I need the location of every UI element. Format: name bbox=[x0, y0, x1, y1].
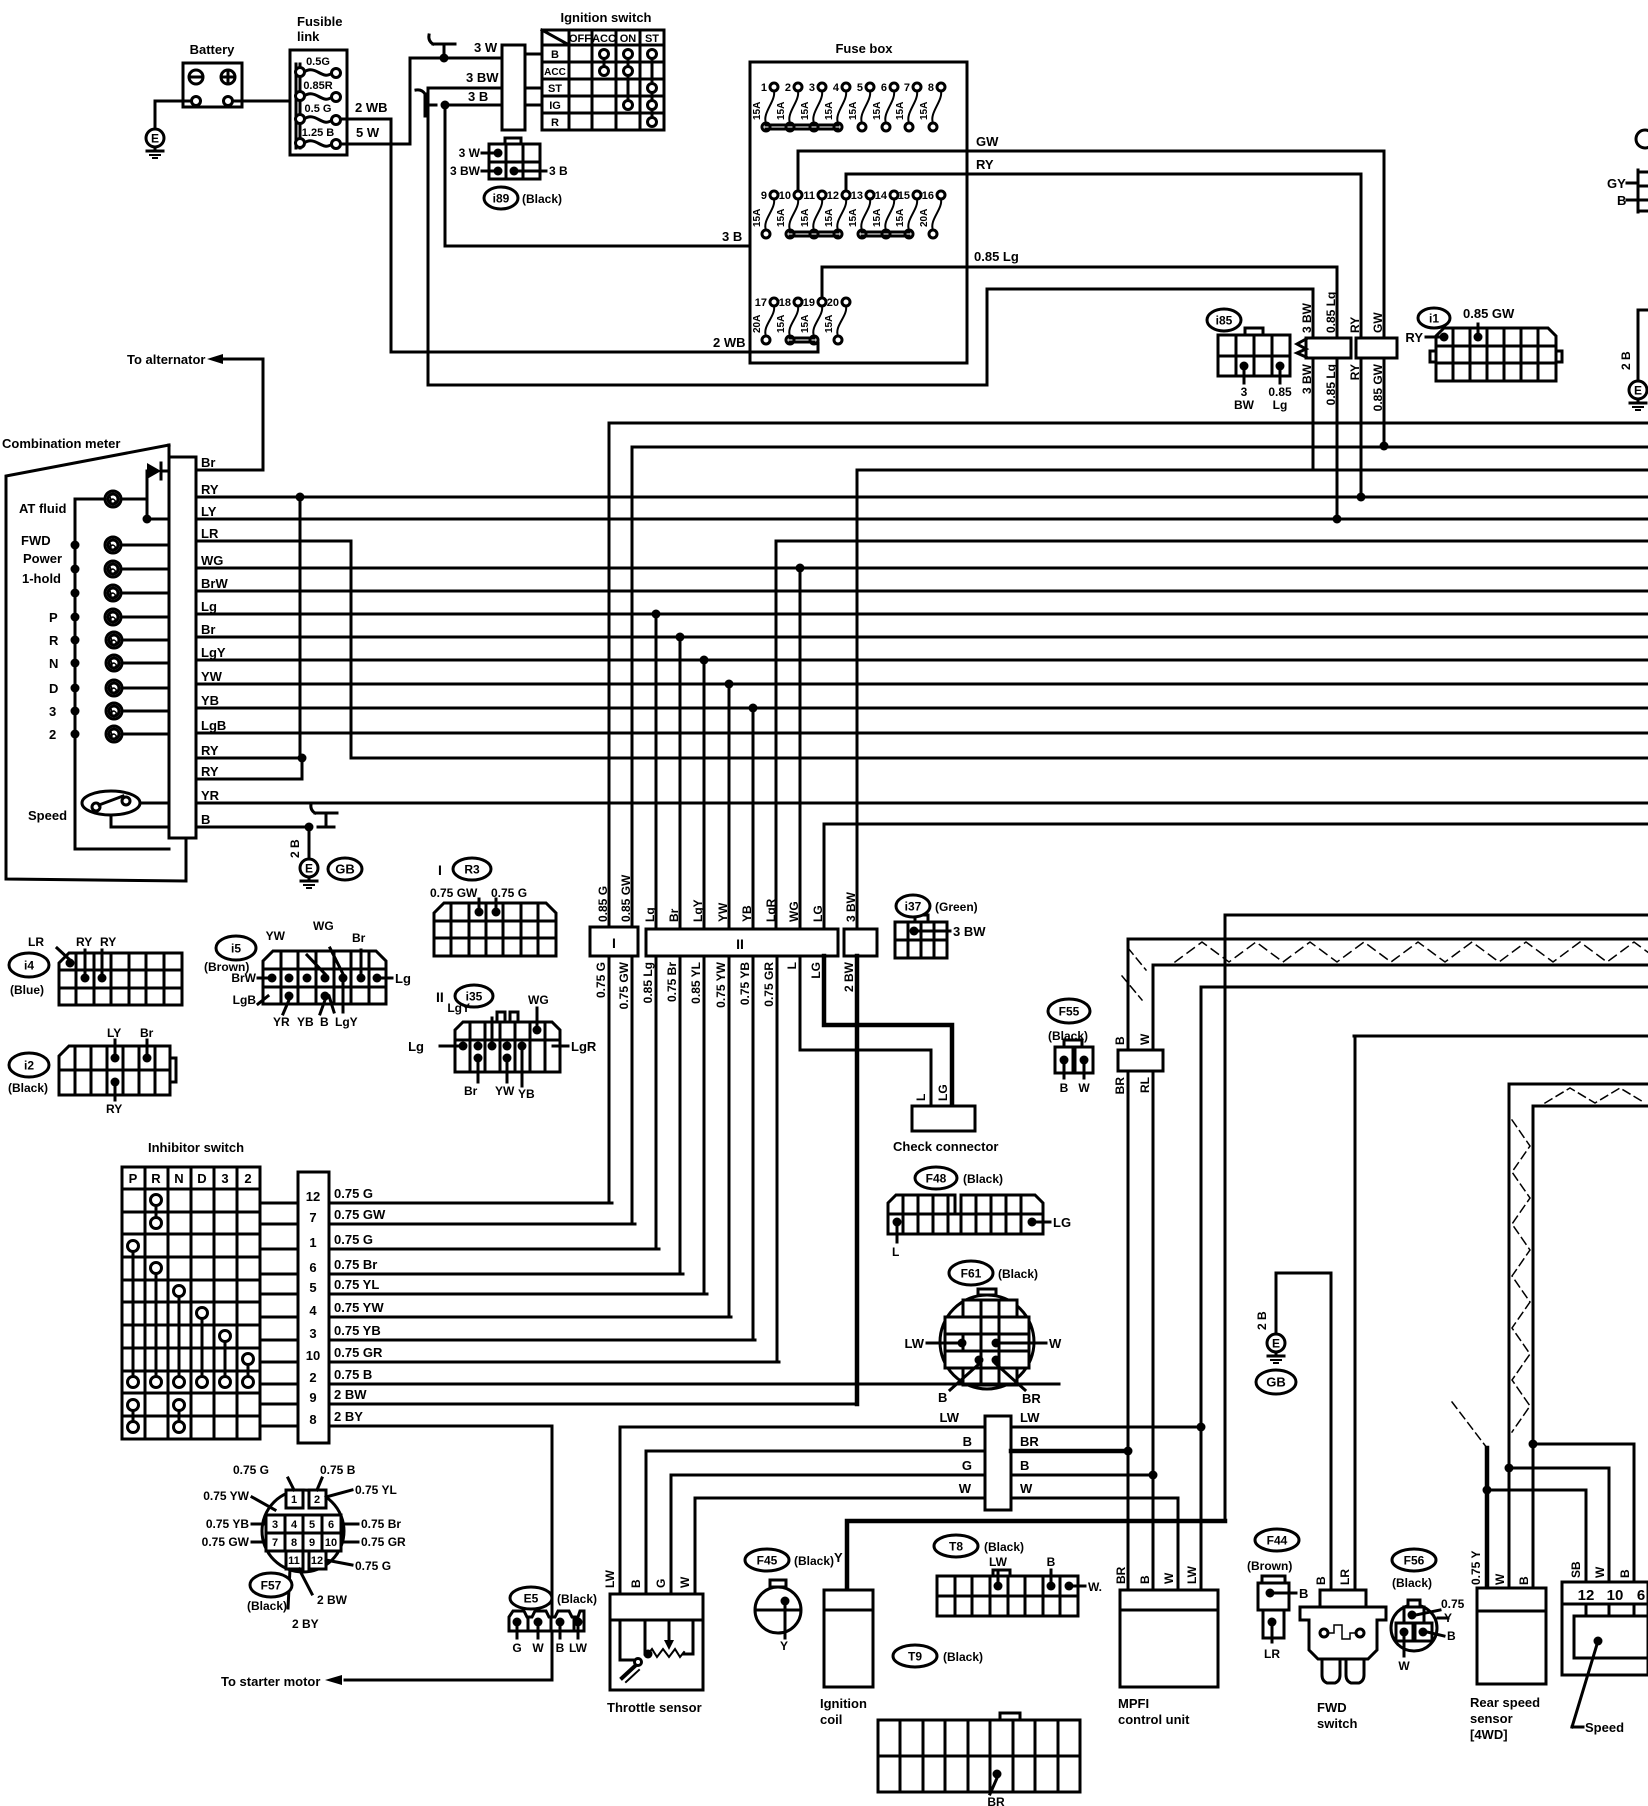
rear speed sensor bbox=[1470, 1588, 1546, 1742]
svg-text:D: D bbox=[197, 1171, 206, 1186]
svg-text:12: 12 bbox=[311, 1555, 323, 1567]
connector id F57 bbox=[250, 1573, 292, 1597]
ground id GB (meter) bbox=[328, 858, 362, 880]
svg-text:RY: RY bbox=[201, 482, 219, 497]
svg-text:0.85 GW: 0.85 GW bbox=[619, 874, 633, 922]
wire 2BY to starter motor bbox=[345, 1426, 552, 1680]
inhibitor pin 5 wire 0.75 YL bbox=[260, 1293, 298, 1296]
wire 0.85YL below bbox=[703, 956, 706, 1294]
fuse 16 20A bbox=[932, 199, 941, 230]
svg-text:0.85R: 0.85R bbox=[303, 80, 332, 92]
svg-text:Y: Y bbox=[780, 1639, 788, 1653]
svg-text:WG: WG bbox=[313, 919, 334, 933]
svg-text:BR: BR bbox=[1020, 1434, 1039, 1449]
svg-text:0.75 G: 0.75 G bbox=[233, 1463, 269, 1477]
svg-text:1: 1 bbox=[761, 82, 767, 94]
fuse 7 15A bbox=[908, 91, 917, 123]
svg-text:Br: Br bbox=[140, 1026, 154, 1040]
svg-text:I: I bbox=[612, 935, 616, 951]
svg-text:i5: i5 bbox=[231, 941, 241, 955]
svg-text:LY: LY bbox=[107, 1026, 121, 1040]
svg-text:Y: Y bbox=[834, 1550, 843, 1565]
to alternator arrow bbox=[127, 352, 261, 367]
svg-text:0.75 GW: 0.75 GW bbox=[430, 886, 478, 900]
wire L below to check connector bbox=[800, 956, 931, 1106]
fuse 6 15A bbox=[885, 91, 894, 123]
svg-text:B: B bbox=[551, 49, 559, 61]
svg-text:0.75 Br: 0.75 Br bbox=[361, 1517, 401, 1531]
svg-text:LgY: LgY bbox=[447, 1001, 470, 1015]
svg-text:5: 5 bbox=[309, 1280, 316, 1295]
svg-text:coil: coil bbox=[820, 1712, 842, 1727]
svg-text:10: 10 bbox=[325, 1537, 337, 1549]
svg-text:18: 18 bbox=[779, 297, 791, 309]
svg-text:0.85 G: 0.85 G bbox=[596, 886, 610, 922]
svg-text:P: P bbox=[49, 610, 58, 625]
wire W to rear speed sensor bbox=[1508, 1468, 1511, 1588]
svg-text:Br: Br bbox=[667, 908, 681, 922]
svg-text:LG: LG bbox=[811, 905, 825, 922]
connector i2 bbox=[9, 1053, 49, 1077]
shield zigzag top bbox=[1175, 942, 1648, 962]
svg-text:W: W bbox=[1162, 1572, 1176, 1584]
svg-text:Power: Power bbox=[23, 551, 62, 566]
wire WG drop bbox=[799, 568, 802, 929]
svg-text:LgY: LgY bbox=[335, 1015, 358, 1029]
wire LgR bus bbox=[776, 540, 1648, 543]
svg-text:12: 12 bbox=[1578, 1587, 1595, 1604]
check connector bbox=[893, 1106, 998, 1154]
svg-text:LgR: LgR bbox=[764, 898, 778, 922]
svg-text:Y: Y bbox=[1444, 1611, 1452, 1625]
shield zigzag right horizontal bbox=[1545, 1088, 1645, 1103]
wire 0.75Br below bbox=[679, 956, 682, 1274]
svg-text:B: B bbox=[1113, 1036, 1127, 1045]
svg-text:(Brown): (Brown) bbox=[1247, 1559, 1292, 1573]
svg-text:(Black): (Black) bbox=[963, 1172, 1003, 1186]
svg-text:2: 2 bbox=[49, 727, 56, 742]
svg-text:Inhibitor switch: Inhibitor switch bbox=[148, 1140, 244, 1155]
svg-text:B: B bbox=[1299, 1586, 1308, 1601]
wire LgR drop bbox=[775, 541, 778, 929]
svg-text:RY: RY bbox=[1348, 317, 1362, 333]
svg-text:0.85: 0.85 bbox=[1268, 385, 1292, 399]
svg-text:3 BW: 3 BW bbox=[953, 924, 986, 939]
svg-text:7: 7 bbox=[904, 82, 910, 94]
svg-text:Br: Br bbox=[201, 622, 215, 637]
svg-text:5: 5 bbox=[857, 82, 863, 94]
svg-text:ST: ST bbox=[548, 83, 562, 95]
svg-text:IG: IG bbox=[549, 100, 561, 112]
connector F45 bbox=[745, 1549, 789, 1571]
svg-text:Fusible: Fusible bbox=[297, 14, 343, 29]
svg-text:BR: BR bbox=[1113, 1077, 1127, 1095]
connector F44 bbox=[1255, 1529, 1299, 1551]
wire Lg long bbox=[214, 613, 1648, 616]
svg-text:15A: 15A bbox=[800, 102, 811, 120]
svg-text:RY: RY bbox=[1405, 330, 1423, 345]
svg-text:0.75 YW: 0.75 YW bbox=[203, 1489, 249, 1503]
svg-text:N: N bbox=[49, 656, 58, 671]
wire LW drop to MPFI bbox=[1200, 987, 1203, 1590]
ignition coil bbox=[820, 1590, 873, 1727]
svg-text:0.75 GW: 0.75 GW bbox=[202, 1535, 250, 1549]
wire W throttle to junction bbox=[695, 1498, 985, 1594]
svg-text:0.75 G: 0.75 G bbox=[355, 1559, 391, 1573]
svg-text:YW: YW bbox=[266, 929, 286, 943]
svg-text:link: link bbox=[297, 29, 320, 44]
svg-text:LW: LW bbox=[1020, 1410, 1040, 1425]
fusible link bbox=[290, 14, 347, 155]
wire 0.75Y to rear speed sensor bbox=[1485, 1448, 1490, 1588]
svg-text:1.25 B: 1.25 B bbox=[302, 127, 334, 139]
svg-text:15A: 15A bbox=[776, 102, 787, 120]
svg-text:0.75 GR: 0.75 GR bbox=[762, 962, 776, 1007]
svg-text:0.85 Lg: 0.85 Lg bbox=[974, 249, 1019, 264]
svg-text:F56: F56 bbox=[1404, 1553, 1425, 1567]
wire FWD LR up bbox=[1354, 1036, 1357, 1590]
svg-text:Check connector: Check connector bbox=[893, 1139, 998, 1154]
svg-text:15A: 15A bbox=[848, 102, 859, 120]
wire RY short 1 bbox=[214, 757, 302, 760]
svg-text:2 BW: 2 BW bbox=[842, 961, 856, 992]
svg-text:RL: RL bbox=[1138, 1077, 1152, 1093]
svg-text:W: W bbox=[1493, 1573, 1507, 1585]
svg-text:0.75 G: 0.75 G bbox=[334, 1186, 373, 1201]
FWD switch bbox=[1300, 1569, 1386, 1731]
wire GW continues below bbox=[1383, 358, 1386, 446]
svg-text:0.75 Y: 0.75 Y bbox=[1469, 1551, 1483, 1585]
svg-text:BrW: BrW bbox=[231, 971, 256, 985]
svg-text:R: R bbox=[49, 633, 59, 648]
svg-text:8: 8 bbox=[309, 1412, 316, 1427]
svg-text:BR: BR bbox=[1022, 1391, 1041, 1406]
svg-text:(Green): (Green) bbox=[935, 900, 978, 914]
connector id i37 bbox=[896, 895, 930, 917]
svg-text:0.75 YB: 0.75 YB bbox=[738, 962, 752, 1005]
inline connector (RY / GW) bbox=[1356, 338, 1397, 358]
svg-text:15A: 15A bbox=[872, 102, 883, 120]
svg-text:0.75 Br: 0.75 Br bbox=[334, 1257, 377, 1272]
svg-text:20A: 20A bbox=[919, 209, 930, 227]
svg-text:L: L bbox=[785, 962, 799, 969]
svg-text:3: 3 bbox=[49, 704, 56, 719]
svg-text:LG: LG bbox=[1053, 1215, 1071, 1230]
svg-text:Lg: Lg bbox=[643, 907, 657, 922]
wire LgY drop bbox=[703, 660, 706, 929]
inhibitor pin 3 wire 0.75 YB bbox=[260, 1339, 298, 1342]
shielded pair B wire y939 bbox=[1128, 938, 1648, 941]
svg-text:LgY: LgY bbox=[201, 645, 226, 660]
svg-text:0.75 G: 0.75 G bbox=[594, 962, 608, 998]
fuse 12 15A bbox=[837, 199, 846, 230]
splice symbol 3B bbox=[425, 104, 436, 107]
svg-text:W: W bbox=[678, 1576, 692, 1588]
svg-text:2 BY: 2 BY bbox=[292, 1617, 319, 1631]
battery bbox=[183, 42, 242, 107]
right edge ground 2B bbox=[1619, 310, 1648, 380]
svg-text:GB: GB bbox=[335, 862, 355, 877]
ground E (battery) bbox=[146, 129, 164, 147]
svg-text:2 B: 2 B bbox=[1255, 1311, 1269, 1330]
svg-text:3: 3 bbox=[1241, 385, 1248, 399]
wire B junction bbox=[1011, 1474, 1153, 1477]
AT junction bar bbox=[985, 1416, 1011, 1510]
svg-text:i2: i2 bbox=[24, 1058, 34, 1072]
ignition switch connector bar bbox=[502, 45, 525, 130]
svg-text:W: W bbox=[1078, 1081, 1090, 1095]
svg-text:L: L bbox=[892, 1245, 899, 1259]
svg-text:LgB: LgB bbox=[233, 993, 257, 1007]
svg-text:II: II bbox=[736, 936, 744, 952]
svg-text:RY: RY bbox=[201, 764, 219, 779]
wire Br long bbox=[214, 636, 1648, 639]
fuse 13 15A bbox=[861, 199, 870, 230]
svg-text:LW: LW bbox=[989, 1555, 1008, 1569]
svg-text:G: G bbox=[654, 1579, 668, 1588]
svg-text:0.5G: 0.5G bbox=[306, 56, 330, 68]
svg-text:7: 7 bbox=[272, 1537, 278, 1549]
svg-text:(Black): (Black) bbox=[522, 192, 562, 206]
svg-text:To starter motor: To starter motor bbox=[221, 1674, 320, 1689]
svg-text:B: B bbox=[201, 812, 210, 827]
svg-text:Fuse box: Fuse box bbox=[835, 41, 893, 56]
svg-text:B: B bbox=[1617, 193, 1626, 208]
svg-text:0.75 B: 0.75 B bbox=[334, 1367, 372, 1382]
svg-text:D: D bbox=[49, 681, 58, 696]
svg-text:1: 1 bbox=[309, 1235, 316, 1250]
svg-text:2 WB: 2 WB bbox=[355, 100, 388, 115]
fuse 10 15A bbox=[789, 199, 798, 230]
svg-text:4: 4 bbox=[291, 1519, 298, 1531]
MPFI control unit bbox=[1114, 1565, 1218, 1727]
svg-text:(Black): (Black) bbox=[557, 1592, 597, 1606]
junction bar I bbox=[590, 927, 638, 956]
svg-text:0.75 YL: 0.75 YL bbox=[355, 1483, 397, 1497]
svg-text:BR: BR bbox=[1114, 1566, 1128, 1584]
svg-text:15A: 15A bbox=[919, 102, 930, 120]
wire YW long bbox=[214, 683, 1648, 686]
svg-text:T8: T8 bbox=[949, 1539, 963, 1553]
inhibitor pin 8 wire 2 BY bbox=[260, 1425, 298, 1428]
wire W junction to MPFI bbox=[1011, 1498, 1178, 1590]
svg-text:B: B bbox=[938, 1390, 947, 1405]
svg-text:10: 10 bbox=[1607, 1587, 1624, 1604]
fuse 18 15A bbox=[789, 306, 798, 336]
ground E (meter) bbox=[300, 859, 318, 877]
fuse box bbox=[750, 41, 967, 363]
svg-text:LR: LR bbox=[1264, 1647, 1280, 1661]
svg-text:8: 8 bbox=[291, 1537, 297, 1549]
wire RY long bbox=[214, 496, 1648, 499]
connector T9 bbox=[893, 1645, 937, 1667]
wire WG long bbox=[214, 567, 1648, 570]
svg-text:6: 6 bbox=[328, 1519, 334, 1531]
svg-text:3 BW: 3 BW bbox=[1300, 302, 1314, 333]
connector F56 bbox=[1392, 1549, 1436, 1571]
svg-text:0.75 G: 0.75 G bbox=[491, 886, 527, 900]
svg-text:2: 2 bbox=[244, 1171, 251, 1186]
svg-text:3 B: 3 B bbox=[468, 89, 488, 104]
svg-text:2 WB: 2 WB bbox=[713, 335, 746, 350]
svg-text:WG: WG bbox=[528, 993, 549, 1007]
svg-text:9: 9 bbox=[309, 1390, 316, 1405]
svg-text:B: B bbox=[1020, 1458, 1029, 1473]
wire Y drop (ignition coil) bbox=[1224, 915, 1227, 1521]
svg-text:4: 4 bbox=[833, 82, 840, 94]
connector id i89 bbox=[484, 187, 518, 209]
svg-text:2 BW: 2 BW bbox=[334, 1387, 367, 1402]
shield zigzag right vertical bbox=[1512, 1120, 1530, 1432]
svg-text:11: 11 bbox=[803, 190, 815, 202]
wire 0.85G top bus bbox=[609, 422, 1648, 425]
svg-text:5 W: 5 W bbox=[356, 125, 380, 140]
inhibitor pin 2 wire 0.75 B bbox=[260, 1383, 298, 1386]
combination meter outline bbox=[2, 436, 186, 881]
svg-text:YB: YB bbox=[740, 905, 754, 922]
svg-text:15A: 15A bbox=[895, 102, 906, 120]
svg-text:12: 12 bbox=[306, 1189, 320, 1204]
svg-text:2 BY: 2 BY bbox=[334, 1409, 363, 1424]
svg-text:0.75 YB: 0.75 YB bbox=[334, 1323, 381, 1338]
svg-text:B: B bbox=[1517, 1576, 1531, 1585]
svg-text:i89: i89 bbox=[493, 191, 510, 205]
svg-text:ON: ON bbox=[620, 33, 637, 45]
svg-text:0.75: 0.75 bbox=[1441, 1597, 1465, 1611]
svg-text:LW: LW bbox=[905, 1336, 925, 1351]
meter lamp bus bbox=[75, 499, 169, 849]
right edge connector GY/B bbox=[1607, 130, 1648, 212]
svg-text:RY: RY bbox=[201, 743, 219, 758]
svg-text:i37: i37 bbox=[905, 899, 922, 913]
svg-text:15A: 15A bbox=[848, 209, 859, 227]
svg-text:3 BW: 3 BW bbox=[466, 70, 499, 85]
wire YB long bbox=[214, 707, 1648, 710]
shielded pair W wire right bbox=[1509, 1083, 1648, 1086]
svg-text:3: 3 bbox=[309, 1326, 316, 1341]
wire 0.75GR below bbox=[776, 956, 779, 1362]
svg-text:YR: YR bbox=[201, 788, 220, 803]
svg-text:MPFI: MPFI bbox=[1118, 1696, 1149, 1711]
speed sensor switch bbox=[28, 791, 169, 827]
svg-text:Ignition switch: Ignition switch bbox=[561, 10, 652, 25]
wire 0.75YB below bbox=[752, 956, 755, 1340]
wire 0.85GW drop to bar I bbox=[631, 447, 634, 927]
svg-text:YB: YB bbox=[518, 1087, 535, 1101]
inhibitor pin 6 wire 0.75 Br bbox=[260, 1273, 298, 1276]
svg-text:i4: i4 bbox=[24, 958, 34, 972]
svg-text:10: 10 bbox=[306, 1348, 320, 1363]
svg-text:B: B bbox=[556, 1641, 565, 1655]
svg-text:15A: 15A bbox=[800, 209, 811, 227]
svg-text:F45: F45 bbox=[757, 1553, 778, 1567]
svg-text:[4WD]: [4WD] bbox=[1470, 1727, 1508, 1742]
wire LgB long bbox=[214, 732, 1648, 735]
wire 2BW below bar III bbox=[855, 956, 860, 1404]
wire 2BW/3BW bus bbox=[857, 469, 1648, 472]
svg-text:LW: LW bbox=[940, 1410, 960, 1425]
svg-text:OFF: OFF bbox=[569, 33, 591, 45]
svg-text:F55: F55 bbox=[1059, 1004, 1080, 1018]
svg-text:T9: T9 bbox=[908, 1649, 922, 1663]
wire B to rear speed sensor bbox=[1532, 1444, 1535, 1588]
svg-text:FWD: FWD bbox=[21, 533, 51, 548]
svg-text:0.5 G: 0.5 G bbox=[305, 103, 332, 115]
svg-text:LgB: LgB bbox=[201, 718, 226, 733]
wire Lg drop bbox=[655, 614, 658, 929]
wire Br drop bbox=[679, 637, 682, 929]
svg-text:i1: i1 bbox=[1429, 311, 1439, 325]
svg-text:9: 9 bbox=[761, 190, 767, 202]
wire B shield drop bbox=[1127, 939, 1130, 1050]
fuse 3 15A bbox=[813, 91, 822, 123]
svg-text:(Black): (Black) bbox=[8, 1081, 48, 1095]
svg-text:Lg: Lg bbox=[1273, 398, 1288, 412]
fuse 9 15A bbox=[765, 199, 774, 230]
svg-text:B: B bbox=[1138, 1575, 1152, 1584]
svg-text:W: W bbox=[532, 1641, 544, 1655]
svg-text:Lg: Lg bbox=[408, 1039, 424, 1054]
inhibitor switch bbox=[122, 1140, 260, 1439]
wire battery positive to fusible link bbox=[233, 100, 290, 103]
fuse 1 15A bbox=[765, 91, 774, 123]
svg-text:LgR: LgR bbox=[571, 1039, 597, 1054]
svg-text:W: W bbox=[959, 1481, 972, 1496]
svg-text:0.75 YW: 0.75 YW bbox=[334, 1300, 384, 1315]
svg-text:ST: ST bbox=[645, 33, 659, 45]
svg-text:0.85 GW: 0.85 GW bbox=[1463, 306, 1515, 321]
svg-text:YR: YR bbox=[273, 1015, 290, 1029]
svg-text:(Black): (Black) bbox=[998, 1267, 1038, 1281]
svg-text:F48: F48 bbox=[926, 1171, 947, 1185]
connector F57 bbox=[202, 1463, 406, 1631]
svg-text:2 B: 2 B bbox=[288, 839, 302, 858]
connector i1 bbox=[1405, 306, 1562, 381]
wire 0.75GW below bar I bbox=[631, 956, 634, 1224]
svg-text:E: E bbox=[1272, 1337, 1280, 1351]
svg-text:1: 1 bbox=[291, 1494, 297, 1506]
svg-text:2: 2 bbox=[309, 1370, 316, 1385]
svg-text:15A: 15A bbox=[872, 209, 883, 227]
svg-text:W: W bbox=[1138, 1033, 1152, 1045]
svg-text:B: B bbox=[320, 1015, 329, 1029]
svg-text:BR: BR bbox=[987, 1795, 1005, 1806]
connector i37 bbox=[895, 915, 986, 958]
connector id i1 bbox=[1418, 308, 1450, 328]
inhibitor pin 10 wire 0.75 GR bbox=[260, 1361, 298, 1364]
svg-text:E: E bbox=[305, 862, 313, 876]
svg-text:II: II bbox=[436, 989, 444, 1005]
svg-text:15A: 15A bbox=[752, 209, 763, 227]
svg-text:RY: RY bbox=[106, 1102, 122, 1116]
svg-text:3 BW: 3 BW bbox=[450, 164, 481, 178]
svg-text:16: 16 bbox=[922, 190, 934, 202]
svg-text:15A: 15A bbox=[752, 102, 763, 120]
svg-text:12: 12 bbox=[827, 190, 839, 202]
svg-text:7: 7 bbox=[309, 1210, 316, 1225]
wire 0.75B crossing F61 bbox=[938, 1383, 1059, 1386]
wire LG below to check connector bbox=[824, 956, 952, 1106]
svg-text:15A: 15A bbox=[776, 209, 787, 227]
ground E (FWD) bbox=[1267, 1334, 1285, 1352]
svg-text:E: E bbox=[151, 132, 159, 146]
svg-text:LG: LG bbox=[809, 962, 823, 979]
wire B dot to speed connector bbox=[1533, 1444, 1634, 1582]
svg-text:Lg: Lg bbox=[201, 599, 217, 614]
wire RY short 2 / RY vertical link bbox=[214, 778, 302, 781]
svg-text:(Black): (Black) bbox=[943, 1650, 983, 1664]
svg-text:W: W bbox=[1020, 1481, 1033, 1496]
